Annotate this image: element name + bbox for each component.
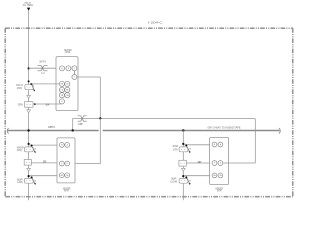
svg-text:C 2: C 2 [41,72,45,75]
pin M1-4 [65,161,70,166]
wire L2 to M2 [184,175,212,177]
connector M1 blower motor [57,138,75,183]
wire B2 to M2 [186,162,210,164]
node bus-cap [72,129,74,131]
connector arrow K2 [27,110,31,113]
switch S2 wiper [31,145,33,147]
svg-text:GRY: GRY [43,161,47,164]
pin E1 [59,93,64,98]
svg-text:F: F [61,163,62,165]
pin M2-5 [212,173,217,178]
pin M2-1 [212,142,217,147]
svg-text:(OFF): (OFF) [17,87,23,90]
wire to M2 [184,144,212,146]
node bus-right [182,129,184,131]
firewall dash-dot border top [5,27,293,29]
node bus-feed [27,129,29,131]
node B+ feed label [23,2,34,7]
switch S5 body [179,178,188,183]
svg-text:BLK: BLK [46,103,50,106]
svg-text:(LOW): (LOW) [171,180,178,183]
wire down from S1 [28,90,30,201]
node L1 [28,143,30,145]
node R1 out [34,103,36,105]
wire L1 to M1 [30,144,60,146]
wire B1 to M1 [31,162,59,164]
wire switch output [77,76,100,78]
pin M1-1 [59,143,64,148]
wire down to blower [70,118,101,163]
node A junction [28,67,30,69]
firewall dash-dot border right [292,28,294,197]
svg-text:(OFF): (OFF) [173,148,178,151]
node R-L2 [182,175,184,177]
pin M1-5 [59,173,64,178]
svg-text:CNTRL: CNTRL [65,52,71,54]
switch S4 body [179,147,188,152]
svg-text:(LOW): (LOW) [17,181,23,184]
pin C2 [65,81,70,86]
wire resistor feed [73,119,256,131]
wire M2 out [223,162,256,164]
firewall dash-dot border left [4,28,6,197]
pin M2-4 [218,161,223,166]
firewall dash-dot border bottom [5,196,293,198]
pin D2 [65,87,70,92]
connector U1 heater control [56,57,78,111]
svg-text:MTR: MTR [217,191,222,193]
wire R1 to U1 [33,103,61,105]
svg-text:CAP: CAP [78,123,83,126]
node L2 [28,175,30,177]
resistor box R1 [25,102,33,108]
svg-text:GRN: GRN [18,104,23,107]
switch S3 wiper [31,176,33,178]
relay coil B1 [24,160,31,166]
bus ground left segment [7,130,99,132]
switch S4 wiper [185,144,187,146]
switch S3 body [24,178,33,183]
pin M2-3 [212,161,217,166]
svg-text:(OFF): (OFF) [17,149,23,152]
switch S5 wiper [185,176,187,178]
svg-text:I-204-C: I-204-C [148,22,163,25]
connector C1 in-line [38,65,48,70]
switch S1 wiper [30,83,32,85]
connector arrow K3 [27,168,31,171]
connector arrow K4 [181,168,185,171]
connector C2 in-line [78,116,87,121]
pin A1 [60,66,65,71]
svg-text:GRY 5-WAY TO IN BND TAPE: GRY 5-WAY TO IN BND TAPE [208,127,241,130]
wire L2 to M1 [30,175,60,177]
wire to fuse [29,67,60,69]
pin A3 [72,66,77,71]
svg-text:30 PS: 30 PS [39,61,46,64]
pin C1 [59,81,64,86]
connector M2 AC blower [210,138,229,185]
wire main vertical feed [28,10,30,84]
svg-text:GRY 2: GRY 2 [48,126,55,129]
bus arrow right [279,128,280,133]
pin A2 [66,66,71,71]
wire right cluster feed [182,130,184,200]
pin M1-6 [65,173,70,178]
svg-text:MTR: MTR [64,191,69,193]
switch S2 body [24,147,33,152]
power feed arrow [27,8,30,11]
pin M2-6 [218,173,223,178]
svg-text:F: F [214,163,215,165]
relay coil B2 [179,160,186,166]
pin M1-2 [65,143,70,148]
wire pin link [73,71,75,75]
bus ground right segment [103,130,280,132]
node R-L1 [182,143,184,145]
pin F1 [59,99,64,104]
switch S1 body [25,84,33,89]
pin B1 [72,75,77,80]
node C junction [99,117,101,119]
svg-text:GRY: GRY [198,161,202,164]
pin D1 [59,87,64,92]
wire S1 to U1 [31,83,59,85]
bus arrow left [7,128,8,133]
svg-text:ALL TIMES: ALL TIMES [23,4,34,7]
pin E2 [65,93,70,98]
connector arrow K1 [27,95,31,98]
pin letters M1 [61,144,70,177]
switch S1 dot [28,80,30,82]
pin M2-2 [218,142,223,147]
pin M1-3 [59,161,64,166]
pin letters M2 [213,143,222,177]
pin letters U1 [61,67,76,103]
